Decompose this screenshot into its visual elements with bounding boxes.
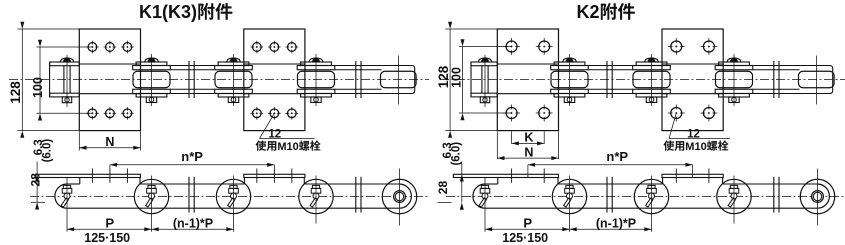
svg-text:K1(K3): K1(K3)	[139, 2, 197, 22]
dimension P and (n-1)*P (K1)	[67, 228, 234, 230]
bolt hole plate1 r1c2 (K1)	[106, 43, 115, 52]
roller pin4 (side K2) centerline	[733, 176, 735, 224]
dimension K (K2)	[511, 131, 513, 144]
attachment plate 1 side (K1)	[35, 174, 140, 177]
bolt hole plate2 r2c3 (K1)	[288, 109, 297, 118]
roller pin2 (side K1) pin	[148, 185, 155, 188]
roller pin2 (side K2) pin	[566, 185, 573, 188]
svg-text:100: 100	[450, 67, 464, 88]
svg-text:K: K	[524, 131, 533, 145]
pin 3 roller unit (K1 top view)	[227, 58, 241, 62]
link plate bottom edge (side K2)	[485, 207, 817, 209]
break symbol 1 (side K1)	[188, 177, 190, 213]
pin1 (side K2)	[481, 185, 488, 188]
attachment plate 2 side (K2)	[662, 174, 723, 177]
dimension 100 (K2)	[459, 46, 512, 48]
svg-text:100: 100	[31, 77, 45, 98]
roller pin4 (side K1) pin	[312, 185, 319, 188]
svg-text:n*P: n*P	[606, 149, 628, 164]
end roller link (K2 top view)	[753, 66, 833, 94]
dimension 128 (K2)	[445, 28, 497, 30]
link plate top edge segments (side K1)	[67, 183, 80, 185]
outer link plates through attachment plate 1 (K2)	[497, 63, 558, 65]
end roller (side K2)	[800, 179, 835, 214]
svg-text:(6.0): (6.0)	[451, 142, 463, 166]
roller pin2 (side K2) centerline	[569, 176, 571, 232]
roller pin3 (side K2) pin	[648, 185, 655, 188]
break symbol 1 (K2 top view)	[606, 61, 608, 98]
svg-text:12: 12	[268, 129, 281, 141]
bolt note (K1)	[256, 140, 267, 150]
roller pin4 (side K2) pin	[730, 185, 737, 188]
attachment plate 2 (K2)	[662, 29, 723, 131]
attachment plate 2 (K1)	[244, 29, 305, 131]
bolt annotation leader (K1)	[260, 113, 275, 138]
bolt hole plate2 r1c3 (K1)	[288, 43, 297, 52]
svg-text:P: P	[523, 215, 532, 230]
dimension n*P (K1)	[110, 164, 274, 166]
dimension n*P (K2)	[528, 164, 693, 166]
bolt hole plate1 r2c2 (K2)	[539, 108, 550, 119]
link plate bottom edge (side K1)	[67, 207, 399, 209]
svg-text:128: 128	[8, 81, 23, 104]
chain centerline (side view K1)	[30, 196, 430, 198]
roller pin2 (side K1)	[134, 179, 168, 213]
pin 2 roller unit (K1 top view)	[145, 58, 159, 62]
bolt hole plate2 r1c1 (K1)	[253, 43, 262, 52]
end roller (side K1) centerline	[399, 169, 401, 226]
roller pin3 (side K1) pin	[230, 185, 237, 188]
link plate end radius at chain end (side K1)	[399, 184, 411, 208]
link plate end radius at pin1 (side K1)	[55, 184, 67, 208]
bolt hole plate1 r2c1 (K1)	[88, 109, 97, 118]
pin 1 end link (K2 top view)	[470, 62, 472, 97]
chain centerline (top view K1)	[9, 79, 429, 81]
bolt hole plate1 r1c2 (K2)	[539, 41, 550, 52]
pin 2 roller unit (K2 top view)	[563, 58, 577, 62]
roller pin4 (side K2)	[717, 179, 751, 213]
dimension N (K2)	[496, 131, 498, 159]
svg-text:K2: K2	[577, 2, 600, 22]
break symbol 2 (side K1)	[355, 177, 357, 213]
pin 3 roller unit (K2 top view)	[645, 58, 659, 62]
link plate top edge segments (side K2)	[485, 183, 498, 185]
svg-text:P: P	[105, 215, 114, 230]
bolt hole plate2 r2c2 (K2)	[703, 108, 714, 119]
bolt hole plate1 r2c3 (K1)	[123, 109, 132, 118]
bolt hole plate2 r2c1 (K2)	[671, 108, 682, 119]
roller pin3 (side K1)	[216, 179, 250, 213]
pin 4 roller unit (K2 top view)	[727, 58, 741, 62]
bolt note (K2)	[663, 140, 674, 150]
svg-text:28: 28	[436, 181, 450, 195]
svg-text:(n-1)*P: (n-1)*P	[173, 216, 213, 230]
roller pin3 (side K1) centerline	[233, 176, 235, 232]
svg-text:12: 12	[687, 129, 700, 141]
attachment plate 1 side (K2)	[453, 174, 558, 177]
svg-text:125·150: 125·150	[84, 231, 130, 245]
break symbol 1 (side K2)	[606, 177, 608, 213]
break symbol 1 (K1 top view)	[188, 61, 190, 98]
link plate rails pin2-pin3 (K1)	[170, 65, 214, 67]
attachment plate 2 side (K1)	[244, 174, 305, 177]
end roller link (K1 top view)	[335, 66, 415, 94]
dimension P and (n-1)*P (K2)	[485, 228, 652, 230]
svg-text:28: 28	[28, 173, 42, 187]
link plate rails pin2-pin3 (K2)	[588, 65, 632, 67]
svg-text:n*P: n*P	[181, 149, 203, 164]
bolt hole plate1 r2c1 (K2)	[506, 108, 517, 119]
outer link plates through attachment plate 1 (K1)	[79, 63, 140, 65]
outer link plates through attachment plate 2 (K2)	[662, 63, 723, 65]
attachment plate 1 (K1)	[79, 29, 140, 131]
dimension 100 (K1)	[37, 46, 93, 48]
bolt hole plate2 r1c2 (K1)	[270, 43, 279, 52]
break symbol 2 (side K2)	[773, 177, 775, 213]
chain centerline (top view K2)	[440, 79, 845, 81]
dimension 28 (K1)	[36, 174, 38, 202]
roller pin4 (side K1)	[299, 179, 333, 213]
bolt hole plate1 r1c1 (K1)	[88, 43, 97, 52]
end roller (side K1)	[382, 179, 417, 214]
svg-text:M10: M10	[685, 141, 706, 153]
pin1 (side K1)	[63, 185, 70, 188]
roller pin3 (side K2)	[634, 179, 668, 213]
svg-text:N: N	[524, 145, 533, 159]
bolt hole plate2 r2c2 (K1)	[270, 109, 279, 118]
dimension 128 (K1)	[18, 28, 80, 30]
roller pin2 (side K1) centerline	[151, 176, 153, 232]
svg-text:(6.0): (6.0)	[41, 139, 53, 163]
svg-text:(n-1)*P: (n-1)*P	[596, 216, 636, 230]
dimension N (K1)	[78, 131, 80, 150]
bolt hole plate1 r1c1 (K2)	[506, 41, 517, 52]
attachment plate 1 (K2)	[497, 29, 558, 131]
break symbol 2 (K2 top view)	[773, 61, 775, 98]
bolt hole plate2 r1c1 (K2)	[671, 41, 682, 52]
dimension 28 (K2)	[461, 174, 463, 202]
outer link plates through attachment plate 2 (K1)	[244, 63, 305, 65]
svg-text:125·150: 125·150	[502, 231, 548, 245]
break symbol 2 (K1 top view)	[355, 61, 357, 98]
roller pin4 (side K1) centerline	[315, 176, 317, 224]
bolt hole plate2 r1c2 (K2)	[703, 41, 714, 52]
svg-text:M10: M10	[277, 141, 298, 153]
bolt hole plate1 r1c3 (K1)	[123, 43, 132, 52]
bolt hole plate2 r2c1 (K1)	[253, 109, 262, 118]
roller pin3 (side K2) centerline	[651, 176, 653, 232]
end roller (side K2) centerline	[817, 169, 819, 226]
pin 1 end link (K1 top view)	[49, 62, 51, 97]
link plate end radius at chain end (side K2)	[817, 184, 829, 208]
link plate end radius at pin1 (side K2)	[473, 184, 485, 208]
pin 4 roller unit (K1 top view)	[309, 58, 323, 62]
bolt hole plate1 r2c2 (K1)	[106, 109, 115, 118]
roller pin2 (side K2)	[552, 179, 586, 213]
bolt annotation leader (K2)	[669, 113, 676, 139]
chain centerline (side view K2)	[446, 196, 845, 198]
svg-text:N: N	[105, 135, 114, 149]
